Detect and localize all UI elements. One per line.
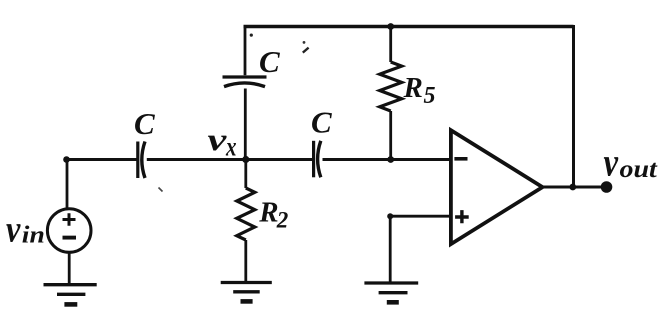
svg-text:C: C — [311, 105, 332, 140]
wire main line: source node to input cap — [67, 158, 138, 161]
voltage source v_in — [47, 160, 91, 285]
node junction + input corner — [387, 213, 393, 219]
ground (under R2) — [221, 283, 272, 302]
op-amp non-inverting input symbol — [455, 210, 469, 223]
op-amp U1 — [451, 130, 543, 244]
label v_x — [208, 122, 237, 162]
node v_x — [242, 156, 249, 163]
label v_out — [604, 139, 659, 184]
ground (op-amp + input) — [364, 283, 418, 302]
svg-text:R: R — [258, 196, 278, 228]
resistor R2 — [237, 160, 255, 282]
stray scan speck (dot) — [303, 41, 306, 44]
stray scan speck (dot near corner) — [250, 34, 253, 37]
wire top feedback rail — [244, 25, 574, 28]
stray scan speck (small tick left) — [159, 188, 163, 192]
svg-text:v: v — [208, 122, 227, 157]
stray scan speck (tick) — [303, 48, 309, 53]
node v_out terminal — [601, 181, 613, 193]
wire top-cap branch upper segment — [244, 25, 247, 75]
svg-text:x: x — [225, 132, 236, 162]
svg-text:in: in — [22, 221, 45, 248]
svg-text:v: v — [6, 208, 21, 250]
wire main line: second cap to op-amp — [323, 158, 451, 161]
svg-text:R: R — [403, 72, 423, 104]
node junction output/feedback — [569, 184, 576, 191]
wire feedback vertical (output to top rail) — [572, 25, 575, 187]
label R2 — [258, 196, 288, 232]
node source top — [63, 156, 70, 163]
ground (under v_in) — [44, 285, 97, 305]
label v_in — [6, 208, 45, 250]
op-amp inverting input symbol — [454, 157, 467, 161]
wire output to v_out terminal — [543, 186, 603, 189]
capacitor C (second series) — [314, 141, 321, 178]
capacitor C (input series) — [138, 142, 145, 179]
capacitor C (feedback, vertical) — [223, 77, 267, 87]
wire main line: input cap to second cap — [147, 158, 313, 161]
svg-text:C: C — [259, 44, 280, 79]
label R5 — [403, 72, 436, 109]
wire top-cap branch lower segment — [244, 89, 247, 160]
node junction R5 bottom — [387, 156, 394, 163]
svg-text:C: C — [134, 106, 155, 141]
svg-text:5: 5 — [424, 83, 436, 109]
svg-text:2: 2 — [276, 207, 289, 232]
node junction R5 top — [387, 23, 394, 30]
svg-text:out: out — [620, 155, 659, 183]
svg-text:v: v — [604, 139, 619, 184]
resistor R5 — [380, 25, 402, 160]
wire non-inverting input to ground — [390, 216, 451, 283]
